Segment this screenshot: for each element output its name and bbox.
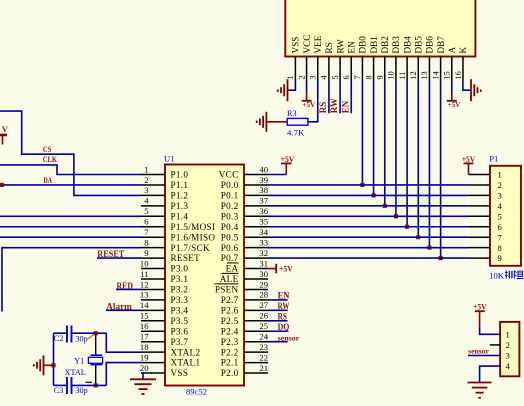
wire LCD EN net stub xyxy=(350,81,352,114)
U1 pin number 31 xyxy=(259,258,268,268)
svg-text:P0.1: P0.1 xyxy=(221,191,239,201)
U1 pin 40 stub xyxy=(244,174,268,176)
net label RS (LCD) xyxy=(318,102,328,114)
U1 pin 11 stub xyxy=(141,278,165,280)
wire U1 pin40 to +5V xyxy=(268,174,286,176)
U1 pin number 11 xyxy=(140,269,148,279)
svg-text:P1.3: P1.3 xyxy=(171,201,189,211)
svg-text:11: 11 xyxy=(140,269,148,279)
svg-text:6: 6 xyxy=(342,75,351,79)
svg-text:P2.4: P2.4 xyxy=(221,326,239,336)
U1 pin name P1.4 xyxy=(171,211,189,221)
P1 pin 6 number xyxy=(498,222,503,232)
svg-text:RESET: RESET xyxy=(97,249,124,259)
svg-text:3: 3 xyxy=(309,75,318,79)
U1 pin name P3.7 xyxy=(171,337,189,347)
U1 pin 13 stub xyxy=(141,299,165,301)
op-chip U1 89c52 body xyxy=(165,165,244,386)
U1 pin 5 stub xyxy=(141,215,165,217)
wire sensor pin4 to ground xyxy=(480,366,501,382)
U1 pin 36 stub xyxy=(244,215,268,217)
junction DB0/P0.0 xyxy=(360,183,364,187)
svg-text:P1.6/MISO: P1.6/MISO xyxy=(171,232,216,242)
wire LCD RS net stub xyxy=(328,81,330,114)
U1 part number 89c52 xyxy=(186,387,207,397)
wire U1 pin25 net stub xyxy=(268,330,288,332)
U1 pin number 16 xyxy=(140,321,149,331)
svg-text:C2: C2 xyxy=(54,334,64,343)
U1 pin 12 stub xyxy=(141,288,165,290)
capacitor C3 plates xyxy=(67,377,72,394)
U1 pin name P3.0 xyxy=(171,264,189,274)
U1 pin name XTAL1 xyxy=(171,358,201,368)
U1 pin name P0.5 xyxy=(221,232,239,242)
svg-text:DB2: DB2 xyxy=(380,36,390,54)
LCD pin number 10 xyxy=(387,71,396,79)
LCD pin number 12 xyxy=(409,71,418,79)
sensor connector pin 2 number xyxy=(506,340,510,350)
U1 pin number 38 xyxy=(259,185,268,195)
U1 pin name P0.0 xyxy=(221,180,239,190)
svg-text:RS: RS xyxy=(324,42,334,53)
wire ground lead (crystal) xyxy=(44,364,54,366)
LCD pin number 11 xyxy=(398,72,407,80)
U1 pin name P1.5/MOSI xyxy=(171,222,216,232)
value 4.7K xyxy=(287,127,305,137)
LCD pin name VCC xyxy=(302,35,312,54)
net label DQ xyxy=(278,322,290,332)
svg-text:1: 1 xyxy=(144,164,148,174)
wire DB3 vertical xyxy=(395,81,397,217)
svg-text:VSS: VSS xyxy=(291,37,301,54)
sensor connector pin 4 number xyxy=(506,361,511,371)
svg-text:8: 8 xyxy=(364,75,373,79)
svg-text:30: 30 xyxy=(259,269,268,279)
P1 pin 9 number xyxy=(498,253,502,263)
wire DA net xyxy=(2,184,141,186)
wire U1 pin27 net stub xyxy=(268,309,288,311)
svg-text:5: 5 xyxy=(331,75,340,79)
LCD pin name DB5 xyxy=(413,36,423,54)
U1 pin name P2.4 xyxy=(221,326,239,336)
U1 pin number 35 xyxy=(259,217,268,227)
svg-text:39: 39 xyxy=(259,175,268,185)
wire P0.3 to P1 pin 5 xyxy=(268,215,490,217)
svg-text:20: 20 xyxy=(140,363,149,373)
svg-text:DB3: DB3 xyxy=(391,36,401,54)
svg-text:VCC: VCC xyxy=(302,35,312,54)
wire P0.0 to P1 pin 2 xyxy=(268,184,490,186)
svg-text:8: 8 xyxy=(498,243,502,253)
svg-text:7: 7 xyxy=(498,232,503,242)
LCD pin 6 (EN) stub xyxy=(350,57,352,81)
wire LCD pin1 to ground xyxy=(288,81,296,91)
U1 pin 29 stub xyxy=(244,288,268,290)
label C2 xyxy=(54,334,64,343)
P1 designator xyxy=(489,154,498,164)
U1 pin number 10 xyxy=(140,258,149,268)
value 30p (C3) xyxy=(75,386,87,395)
svg-text:P2.6: P2.6 xyxy=(221,305,239,315)
svg-text:P3.4: P3.4 xyxy=(171,305,189,315)
power +5V (U1 EA, pointing right) xyxy=(268,264,293,274)
U1 pin 9 stub xyxy=(141,257,165,259)
svg-text:sensor: sensor xyxy=(468,348,489,356)
svg-text:DB0: DB0 xyxy=(358,36,368,54)
U1 pin name P1.6/MISO xyxy=(171,232,216,242)
svg-text:P1.5/MOSI: P1.5/MOSI xyxy=(171,222,216,232)
wire LCD RW net stub xyxy=(339,81,341,114)
U1 pin name P2.2 xyxy=(221,347,239,357)
LCD pin name K xyxy=(458,47,468,54)
net label RW xyxy=(278,301,290,311)
svg-text:4: 4 xyxy=(506,361,511,371)
wire U1 pin20 to ground xyxy=(141,373,143,379)
junction DB7/P0.7 xyxy=(439,256,443,260)
U1 pin name VSS xyxy=(171,368,189,378)
no-ERC marker (dark dash) xyxy=(86,381,93,383)
U1 pin number 23 xyxy=(259,342,268,352)
U1 designator xyxy=(164,154,175,164)
LCD pin name DB1 xyxy=(369,36,379,54)
wire R3 left lead to ground xyxy=(266,121,287,123)
ground (crystal, pointing left) xyxy=(34,355,44,375)
svg-text:5: 5 xyxy=(498,211,502,221)
svg-text:U1: U1 xyxy=(164,154,175,164)
net label RW (LCD) xyxy=(329,98,339,113)
LCD pin number 5 xyxy=(331,75,340,79)
wire U1 pin28 net stub xyxy=(268,299,288,301)
svg-text:P3.1: P3.1 xyxy=(171,274,189,284)
wire LCD pin2 (VCC) xyxy=(306,81,308,92)
U1 pin 28 stub xyxy=(244,299,268,301)
wire P0.6 to P1 pin 8 xyxy=(268,247,490,249)
svg-text:32: 32 xyxy=(259,248,268,258)
svg-text:C3: C3 xyxy=(54,386,64,395)
LCD module connector body xyxy=(285,0,475,57)
U1 pin number 30 xyxy=(259,269,268,279)
svg-text:XTAL1: XTAL1 xyxy=(171,358,201,368)
LCD pin name DB0 xyxy=(358,36,368,54)
U1 pin number 19 xyxy=(140,352,149,362)
svg-text:P0.4: P0.4 xyxy=(221,222,239,232)
U1 pin number 17 xyxy=(140,332,149,342)
U1 pin name P3.1 xyxy=(171,274,189,284)
net label CS xyxy=(43,144,52,154)
svg-text:18: 18 xyxy=(140,342,149,352)
svg-text:VSS: VSS xyxy=(171,368,189,378)
wire P0.4 to P1 pin 6 xyxy=(268,226,490,228)
svg-text:14: 14 xyxy=(140,300,149,310)
svg-text:13: 13 xyxy=(420,71,429,79)
power +5V (left edge, cut off) xyxy=(0,125,8,145)
svg-text:CS: CS xyxy=(43,144,52,154)
svg-text:Alarm: Alarm xyxy=(106,302,132,312)
U1 pin 39 stub xyxy=(244,184,268,186)
U1 pin 35 stub xyxy=(244,226,268,228)
U1 pin number 9 xyxy=(144,248,148,258)
U1 pin 22 stub xyxy=(244,362,268,364)
U1 pin name P3.4 xyxy=(171,305,189,315)
LCD pin 5 (RW) stub xyxy=(339,57,341,81)
U1 pin name P2.1 xyxy=(221,358,239,368)
wire U1 pin18 to crystal xyxy=(106,333,141,352)
LCD pin number 4 xyxy=(320,75,329,79)
wire DB0 vertical xyxy=(361,81,363,185)
svg-text:VCC: VCC xyxy=(219,170,239,180)
svg-text:31: 31 xyxy=(259,258,268,268)
ground (LCD pin1, pointing left) xyxy=(278,79,288,101)
U1 pin name EA xyxy=(226,263,239,274)
svg-text:89c52: 89c52 xyxy=(186,387,207,397)
svg-text:2: 2 xyxy=(498,180,502,190)
svg-text:EN: EN xyxy=(346,41,356,54)
U1 pin 3 stub xyxy=(141,194,165,196)
svg-text:16: 16 xyxy=(454,71,463,79)
net label RED xyxy=(117,281,134,291)
wire DB2 vertical xyxy=(384,81,386,206)
svg-text:38: 38 xyxy=(259,185,268,195)
svg-text:35: 35 xyxy=(259,217,268,227)
wire U1 pin5 xyxy=(0,215,141,217)
svg-text:17: 17 xyxy=(140,332,149,342)
U1 pin name P0.1 xyxy=(221,191,239,201)
connector P2 (sensor) body xyxy=(500,322,519,376)
svg-text:12: 12 xyxy=(409,71,418,79)
svg-text:21: 21 xyxy=(259,363,268,373)
P1 pin 2 number xyxy=(498,180,502,190)
wire LCD pin3 (VEE) to R3 xyxy=(308,81,318,122)
U1 pin number 22 xyxy=(259,352,268,362)
LCD pin number 7 xyxy=(353,75,362,79)
svg-text:30p: 30p xyxy=(75,335,87,344)
svg-text:P2.0: P2.0 xyxy=(221,368,239,378)
U1 pin name P2.7 xyxy=(221,295,239,305)
U1 pin name VCC xyxy=(219,170,239,180)
svg-text:15: 15 xyxy=(140,311,149,321)
wire U1 pin8 (bends down at left edge) xyxy=(2,248,141,312)
wire LCD pin15 (A) xyxy=(451,81,453,92)
svg-text:EN: EN xyxy=(278,291,290,301)
svg-text:P2.3: P2.3 xyxy=(221,337,239,347)
U1 pin name P0.2 xyxy=(221,201,239,211)
LCD pin name EN xyxy=(346,41,356,54)
svg-text:sensor: sensor xyxy=(278,334,300,342)
LCD pin number 15 xyxy=(443,71,452,79)
label 排阻 (resistor network, CJK) xyxy=(505,270,523,278)
power +5V (LCD A, pointing down) xyxy=(447,91,461,109)
svg-text:P0.6: P0.6 xyxy=(221,243,239,253)
svg-text:P1.2: P1.2 xyxy=(171,191,189,201)
svg-text:14: 14 xyxy=(431,71,440,79)
LCD pin number 6 xyxy=(342,75,351,79)
LCD pin number 8 xyxy=(364,75,373,79)
LCD pin name DB7 xyxy=(436,36,446,54)
svg-text:10: 10 xyxy=(140,258,149,268)
sensor connector pin 3 number xyxy=(506,351,510,361)
U1 pin number 18 xyxy=(140,342,149,352)
junction crystal ground tap xyxy=(51,363,55,367)
U1 pin number 4 xyxy=(144,196,149,206)
wire DB7 vertical xyxy=(440,81,442,259)
svg-text:24: 24 xyxy=(259,332,268,342)
svg-text:P2.1: P2.1 xyxy=(221,358,239,368)
svg-text:PSEN: PSEN xyxy=(215,285,239,295)
wire P0.1 to P1 pin 3 xyxy=(268,194,490,196)
svg-text:23: 23 xyxy=(259,342,268,352)
LCD pin 8 (DB1) stub xyxy=(373,57,375,81)
U1 pin number 14 xyxy=(140,300,149,310)
P1 pin 7 number xyxy=(498,232,503,242)
U1 pin number 29 xyxy=(259,279,268,289)
LCD pin name VSS xyxy=(291,37,301,54)
wire DB5 vertical xyxy=(417,81,419,238)
svg-text:P2.5: P2.5 xyxy=(221,316,239,326)
U1 pin 20 stub xyxy=(141,372,165,374)
U1 pin number 7 xyxy=(144,227,149,237)
net label Alarm xyxy=(106,302,132,312)
svg-text:22: 22 xyxy=(259,352,268,362)
U1 pin number 36 xyxy=(259,206,268,216)
P1 pin 4 number xyxy=(498,201,503,211)
svg-text:P1.0: P1.0 xyxy=(171,170,189,180)
svg-text:XTAL2: XTAL2 xyxy=(171,347,201,357)
svg-text:1: 1 xyxy=(286,75,295,79)
LCD pin number 9 xyxy=(376,75,385,79)
U1 pin number 20 xyxy=(140,363,149,373)
LCD pin number 14 xyxy=(431,71,440,79)
svg-text:1: 1 xyxy=(498,170,502,180)
LCD pin name RW xyxy=(335,39,345,54)
svg-text:3: 3 xyxy=(498,191,502,201)
LCD pin 3 (VEE) stub xyxy=(317,57,319,81)
power +5V (P1 pin1) xyxy=(462,155,490,175)
U1 pin 1 stub xyxy=(141,174,165,176)
svg-text:15: 15 xyxy=(443,71,452,79)
net label CLK xyxy=(43,154,58,164)
wire U1 pin24 net stub xyxy=(268,341,288,343)
U1 pin 14 stub xyxy=(141,309,165,311)
label 10K (resistor network) xyxy=(489,271,505,281)
junction DB3/P0.3 xyxy=(394,214,398,218)
power +5V (sensor connector) xyxy=(473,303,487,327)
U1 pin 15 stub xyxy=(141,320,165,322)
U1 pin 38 stub xyxy=(244,194,268,196)
net label DA xyxy=(44,175,53,185)
svg-text:P1: P1 xyxy=(489,154,498,164)
label C3 xyxy=(54,386,64,395)
ground (LCD pin16, pointing right) xyxy=(471,79,481,101)
LCD pin name VEE xyxy=(313,35,323,53)
U1 pin number 28 xyxy=(259,290,268,300)
svg-text:XTAL: XTAL xyxy=(65,368,86,377)
U1 pin 37 stub xyxy=(244,205,268,207)
U1 pin 4 stub xyxy=(141,205,165,207)
U1 pin 18 stub xyxy=(141,351,165,353)
net label RESET xyxy=(97,249,124,259)
wire RESET net stub xyxy=(97,257,141,259)
U1 pin 8 stub xyxy=(141,247,165,249)
svg-text:RW: RW xyxy=(329,98,339,113)
U1 pin name P3.6 xyxy=(171,326,189,336)
U1 pin number 32 xyxy=(259,248,268,258)
svg-text:K: K xyxy=(458,47,468,54)
U1 pin name P1.1 xyxy=(171,180,189,190)
U1 pin number 12 xyxy=(140,279,149,289)
LCD pin number 16 xyxy=(454,71,463,79)
svg-text:DB6: DB6 xyxy=(425,36,435,54)
U1 pin 10 stub xyxy=(141,268,165,270)
svg-text:P0.2: P0.2 xyxy=(221,201,239,211)
U1 pin 24 stub xyxy=(244,341,268,343)
svg-text:36: 36 xyxy=(259,206,268,216)
LCD pin 13 (DB6) stub xyxy=(428,57,430,81)
U1 pin name P1.3 xyxy=(171,201,189,211)
svg-text:4: 4 xyxy=(144,196,149,206)
svg-text:+5V: +5V xyxy=(448,101,462,109)
U1 pin name P1.7/SCK xyxy=(171,243,210,253)
svg-text:P1.1: P1.1 xyxy=(171,180,189,190)
U1 pin number 26 xyxy=(259,311,268,321)
LCD pin 16 (K) stub xyxy=(462,57,464,81)
svg-text:RS: RS xyxy=(278,311,287,321)
U1 pin number 2 xyxy=(144,175,148,185)
svg-text:29: 29 xyxy=(259,279,268,289)
svg-text:EN: EN xyxy=(340,100,350,113)
svg-text:25: 25 xyxy=(259,321,268,331)
U1 pin 23 stub xyxy=(244,351,268,353)
U1 pin number 8 xyxy=(144,237,148,247)
U1 pin 6 stub xyxy=(141,226,165,228)
svg-text:3: 3 xyxy=(144,185,148,195)
U1 pin name ALE xyxy=(220,273,239,284)
svg-text:10: 10 xyxy=(387,71,396,79)
LCD pin number 13 xyxy=(420,71,429,79)
connector P1 body xyxy=(490,166,521,266)
svg-text:+5V: +5V xyxy=(473,303,487,312)
U1 pin name P3.3 xyxy=(171,295,189,305)
svg-text:P3.0: P3.0 xyxy=(171,264,189,274)
svg-text:RS: RS xyxy=(318,102,328,114)
U1 pin name P3.5 xyxy=(171,316,189,326)
svg-text:RW: RW xyxy=(278,301,290,311)
LCD pin name DB4 xyxy=(402,36,412,54)
svg-text:33: 33 xyxy=(259,237,268,247)
svg-text:10K: 10K xyxy=(489,271,505,281)
wire DB6 vertical xyxy=(428,81,430,248)
U1 pin number 15 xyxy=(140,311,149,321)
U1 pin 19 stub xyxy=(141,362,165,364)
LCD pin name DB6 xyxy=(425,36,435,54)
net label EN xyxy=(278,291,290,301)
LCD pin 12 (DB5) stub xyxy=(417,57,419,81)
svg-text:1: 1 xyxy=(506,329,510,339)
wire crystal left vertical xyxy=(53,333,55,385)
U1 pin name P0.6 xyxy=(221,243,239,253)
wire crystal top (XTAL2 net) xyxy=(54,332,107,334)
U1 pin name P2.6 xyxy=(221,305,239,315)
net label sensor xyxy=(278,334,300,342)
svg-text:DB7: DB7 xyxy=(436,36,446,54)
wire P0.2 to P1 pin 4 xyxy=(268,205,490,207)
svg-text:26: 26 xyxy=(259,311,268,321)
U1 pin number 3 xyxy=(144,185,148,195)
svg-text:16: 16 xyxy=(140,321,149,331)
LCD pin name RS xyxy=(324,42,334,53)
power +5V (U1 VCC) xyxy=(281,155,295,175)
svg-text:2: 2 xyxy=(144,175,148,185)
LCD pin number 3 xyxy=(309,75,318,79)
